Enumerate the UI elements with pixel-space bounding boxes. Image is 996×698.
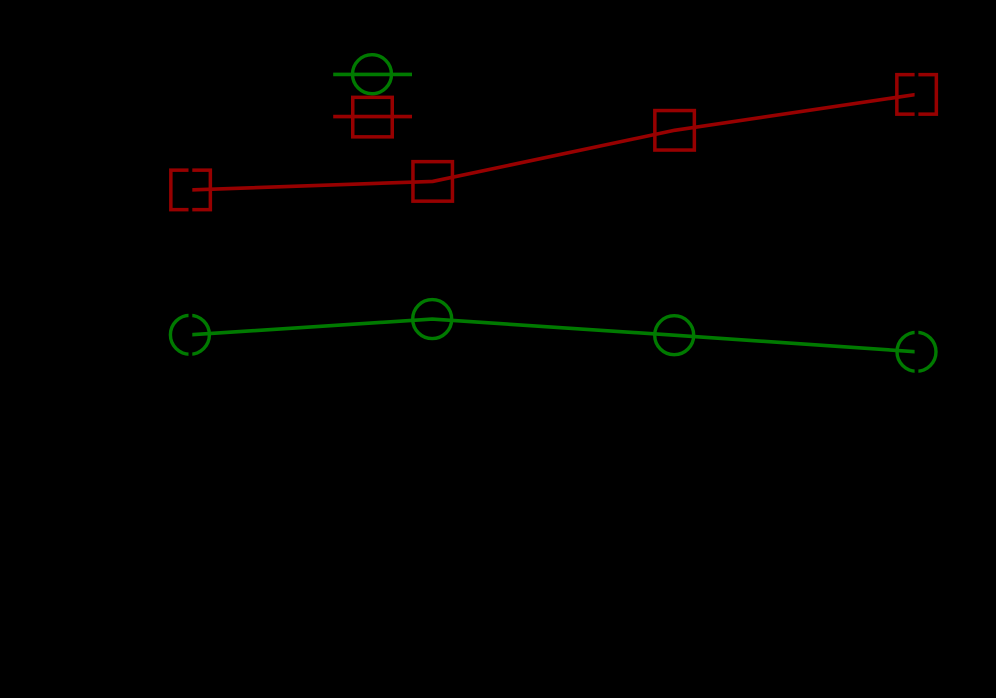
- red square marker 1: [171, 170, 211, 210]
- red square marker 2: [413, 162, 453, 202]
- green circle marker 3: [655, 316, 694, 355]
- red square marker 3: [655, 111, 695, 151]
- red series line: [191, 94, 917, 189]
- plot border left (black, overlays markers): [188, 0, 192, 698]
- green circle marker 2: [413, 300, 452, 339]
- legend circle marker: [353, 55, 392, 94]
- legend square marker: [353, 97, 393, 137]
- legend sample line red: [333, 115, 412, 119]
- red square marker 4: [897, 75, 937, 115]
- green circle marker 1: [170, 315, 209, 354]
- green series line: [190, 319, 917, 352]
- green circle marker 4: [897, 332, 936, 371]
- legend sample line green: [333, 73, 412, 77]
- plot border right (black, overlays markers): [915, 0, 919, 698]
